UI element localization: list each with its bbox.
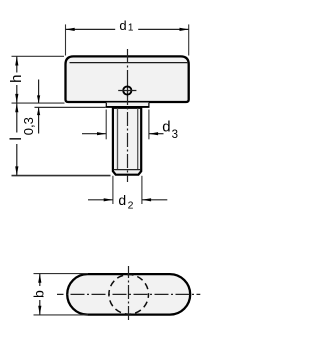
- svg-text:d: d: [118, 192, 126, 208]
- svg-text:d: d: [119, 18, 126, 33]
- svg-text:l: l: [8, 137, 25, 141]
- svg-text:h: h: [8, 75, 25, 83]
- svg-text:1: 1: [128, 23, 134, 34]
- svg-text:0,3: 0,3: [21, 117, 36, 135]
- svg-text:3: 3: [172, 129, 178, 141]
- svg-text:2: 2: [128, 200, 134, 212]
- svg-text:b: b: [30, 290, 46, 298]
- svg-text:d: d: [162, 119, 170, 136]
